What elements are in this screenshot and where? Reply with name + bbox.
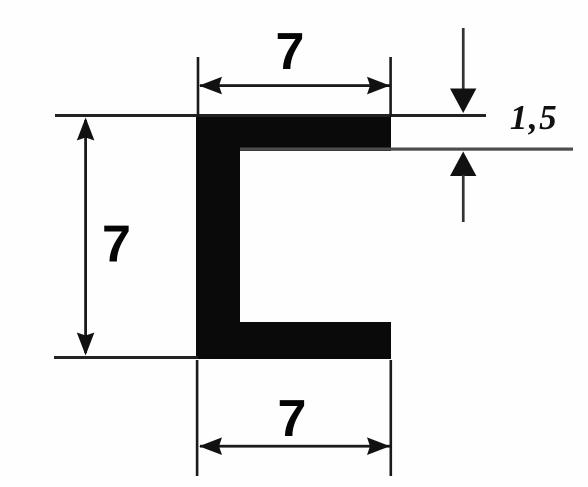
top dimension extension line left <box>197 57 200 117</box>
bottom dimension right arrowhead <box>367 437 390 455</box>
top dimension right arrowhead <box>367 77 390 95</box>
left dimension line <box>84 120 87 353</box>
bottom dimension line <box>200 445 390 448</box>
bottom outer-edge extension line (left horizontal at y=357) <box>54 356 198 359</box>
top outer-edge extension line (left, long horizontal at y=115) <box>55 114 486 117</box>
thickness dimension vertical line upper segment <box>462 28 465 90</box>
bottom dimension extension line left <box>196 360 199 476</box>
left dimension top arrowhead <box>77 118 95 141</box>
thickness dimension upper arrowhead (pointing down) <box>450 89 476 114</box>
bottom dimension extension line right <box>390 360 393 476</box>
thickness dimension vertical line lower segment <box>462 175 465 222</box>
C-channel profile <box>196 115 391 359</box>
top dimension extension line right <box>389 57 392 117</box>
thickness dimension lower arrowhead (pointing up) <box>450 152 476 177</box>
svg-text:7: 7 <box>102 216 131 274</box>
top dimension line <box>200 84 390 87</box>
top dimension left arrowhead <box>199 77 222 95</box>
svg-text:7: 7 <box>276 23 305 81</box>
svg-text:7: 7 <box>278 390 307 448</box>
flange underside line extended right (for 1,5 dimension) <box>240 148 573 151</box>
svg-text:1,5: 1,5 <box>510 98 558 137</box>
left dimension bottom arrowhead <box>77 333 95 356</box>
bottom dimension left arrowhead <box>199 437 222 455</box>
